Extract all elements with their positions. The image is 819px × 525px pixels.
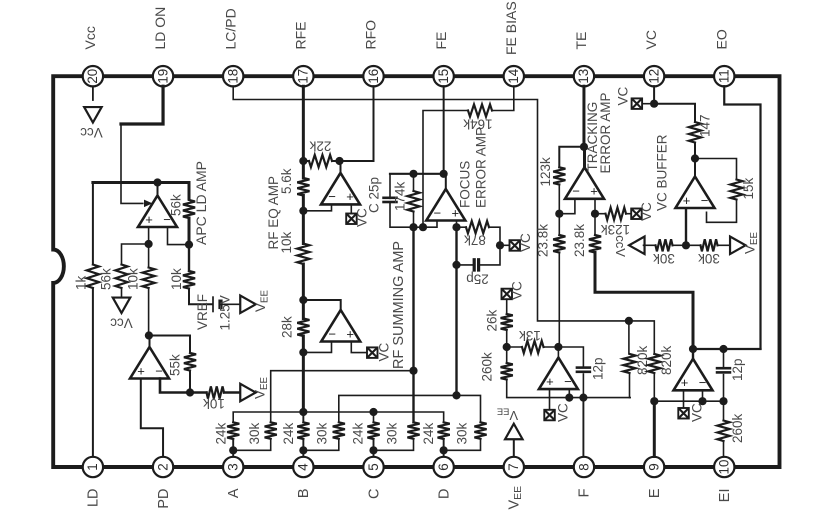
pin 20 circle	[83, 66, 103, 86]
svg-text:30k: 30k	[384, 422, 399, 444]
svg-text:24k: 24k	[281, 422, 296, 444]
junction RFE 22k tap	[299, 157, 307, 165]
wire pin8 riser	[582, 398, 584, 457]
Vcc supply arrow (pin20)	[84, 107, 102, 123]
junction Y1 pin4	[299, 408, 307, 416]
wire pin13 TE riser	[582, 86, 585, 147]
wire pin11 EO to E output	[724, 86, 760, 349]
wire 30k to VEE	[718, 244, 731, 246]
svg-text:+: +	[590, 184, 598, 199]
svg-text:RF SUMMING AMP: RF SUMMING AMP	[391, 241, 407, 369]
pin 1 circle	[83, 457, 103, 477]
wire VC to 147	[654, 104, 695, 122]
svg-text:C: C	[366, 489, 382, 499]
wire U2 output node to 55k	[149, 336, 190, 353]
svg-text:E: E	[647, 488, 663, 498]
wire 23.8k-1 top	[558, 214, 560, 235]
junction focus minus riser	[409, 367, 417, 375]
svg-text:A: A	[226, 488, 242, 498]
junction tracking minus	[555, 210, 563, 218]
svg-text:26k: 26k	[484, 309, 499, 331]
svg-text:6: 6	[436, 463, 451, 470]
wire 30k C riser	[412, 227, 414, 422]
wire 123k to minus node	[558, 185, 560, 214]
wire U7 apex to output	[694, 159, 696, 177]
svg-text:20: 20	[85, 69, 100, 84]
wire 260k EI top	[723, 401, 725, 420]
pin 18 circle	[223, 66, 243, 86]
svg-text:+: +	[346, 189, 354, 204]
svg-text:VREF: VREF	[195, 294, 210, 330]
wire 23.8k-2 to E output	[595, 253, 693, 350]
wire U1 minus input	[168, 227, 190, 245]
wire pin7 VEE	[513, 439, 515, 456]
svg-text:ERROR AMP: ERROR AMP	[473, 127, 488, 208]
wire 820k-2 bottom	[653, 373, 655, 401]
pin 13 circle	[574, 66, 594, 86]
wire 30k A riser to focus minus net	[271, 371, 414, 423]
wire 174k top stub	[413, 174, 415, 191]
junction VC pin node	[650, 100, 658, 108]
svg-text:5.6k: 5.6k	[279, 168, 294, 194]
resistor 56k bias	[115, 265, 127, 289]
op-amp U3 RF EQ AMP	[321, 173, 360, 205]
svg-text:VC: VC	[509, 281, 524, 300]
wire 24k B to pin	[302, 439, 304, 456]
wire E output rail	[693, 348, 761, 350]
svg-text:56k: 56k	[168, 194, 183, 216]
junction 25p tap	[452, 261, 460, 269]
pin 17 circle	[293, 66, 313, 86]
pin 19 circle	[153, 66, 173, 86]
wire U3 apex to RFO node	[340, 161, 342, 173]
svg-text:+: +	[346, 326, 354, 341]
resistor 123k (tracking fb)	[553, 167, 565, 184]
junction pin D pair	[440, 446, 448, 454]
wire 55k to minus rail	[189, 371, 191, 393]
wire U8 plus to VC	[549, 390, 551, 410]
wire 260k top stub	[506, 347, 508, 363]
wire buffer out to 15k	[695, 159, 737, 180]
svg-text:260k: 260k	[730, 413, 745, 443]
resistor 30k (left)	[656, 239, 673, 251]
wire U9 minus input	[702, 391, 704, 401]
wire RFE segment 4	[302, 264, 305, 300]
resistor 123k horizontal	[606, 208, 627, 220]
svg-text:PD: PD	[156, 489, 172, 509]
wire 30k C bottom	[374, 439, 414, 451]
wire node to 30k right	[686, 244, 701, 246]
resistor 22k	[309, 155, 332, 167]
capacitor 12p (F)	[576, 366, 592, 369]
junction F output	[554, 343, 562, 351]
wire U4 apex to output node	[303, 300, 340, 310]
svg-text:5: 5	[366, 463, 381, 470]
svg-text:17: 17	[296, 69, 311, 84]
junction 55k bottom	[186, 388, 194, 396]
pin 7 circle	[504, 457, 524, 477]
wire Vcc to 30k	[644, 244, 656, 246]
wire battery to VEE	[221, 303, 241, 305]
resistor 30k (C)	[407, 422, 419, 439]
svg-text:10k: 10k	[125, 268, 140, 290]
svg-text:19: 19	[155, 69, 170, 84]
wire 260k EI to pin10	[723, 441, 725, 456]
wire focus plus riser	[455, 227, 457, 395]
wire U4 minus input	[303, 343, 331, 353]
resistor 24k (D)	[438, 422, 450, 439]
svg-text:VEE: VEE	[507, 486, 525, 510]
wire pin17 RFE riser	[302, 86, 305, 161]
junction summing minus	[299, 348, 307, 356]
wire 174k bottom stub	[413, 212, 415, 228]
svg-text:87k: 87k	[464, 233, 486, 248]
svg-text:−: −	[701, 193, 709, 208]
svg-text:174k: 174k	[392, 181, 407, 211]
wire 147 to buffer out	[694, 143, 696, 159]
wire cap branch down	[389, 174, 391, 199]
svg-text:1k: 1k	[73, 275, 88, 290]
svg-text:+: +	[683, 193, 691, 208]
svg-text:30k: 30k	[314, 422, 329, 444]
svg-text:+: +	[137, 363, 145, 378]
wire tracking plus to 123k	[595, 213, 606, 215]
wire 12p to rail	[582, 374, 584, 398]
pin 12 circle	[644, 66, 664, 86]
svg-text:RFO: RFO	[363, 20, 379, 50]
wire 13k to F output	[544, 346, 559, 348]
svg-text:14: 14	[506, 68, 521, 83]
VC box (26k top)	[502, 289, 513, 300]
bus Y2 30k B/D bus	[339, 395, 481, 422]
svg-text:15: 15	[436, 69, 451, 84]
svg-text:−: −	[434, 205, 442, 220]
svg-text:25p: 25p	[466, 272, 489, 287]
junction focus output	[440, 170, 448, 178]
svg-text:28k: 28k	[279, 316, 294, 338]
wire U3 minus input	[303, 206, 331, 211]
junction tracking plus	[591, 210, 599, 218]
wire U6 apex to TE	[583, 147, 586, 168]
wire VREF node	[188, 245, 190, 271]
wire 10k to U2 output node	[148, 288, 150, 336]
svg-text:30k: 30k	[454, 422, 469, 444]
svg-text:164k: 164k	[463, 117, 493, 132]
junction E rail 12p	[719, 397, 727, 405]
svg-text:7: 7	[506, 463, 521, 470]
junction VC corner (focus)	[496, 241, 504, 249]
svg-text:147: 147	[697, 114, 712, 137]
VC box (tracking)	[631, 209, 642, 220]
VC box (U4 plus)	[367, 347, 378, 358]
wire U8 minus input	[568, 390, 570, 398]
wire 123k to VC box	[626, 213, 631, 215]
svg-text:8: 8	[576, 463, 591, 470]
resistor 24k (C)	[367, 422, 379, 439]
wire 24k A to pin	[232, 439, 234, 456]
VC box (pin12)	[632, 98, 643, 109]
svg-text:EO: EO	[713, 29, 729, 49]
capacitor 25p	[473, 258, 476, 272]
wire node to 13k	[507, 346, 522, 348]
svg-text:10k: 10k	[169, 268, 184, 290]
wire 22k to RFO node	[332, 160, 340, 162]
wire LD ON down to input arrow	[121, 124, 143, 203]
VC box (U8 plus)	[544, 410, 555, 421]
junction RFE minus tap	[299, 207, 307, 215]
junction 56k bottom	[185, 241, 193, 249]
junction E rail pin9	[650, 397, 658, 405]
wire U1 plus input	[148, 227, 150, 244]
wire pin4 riser above 24k	[302, 412, 304, 422]
wire U2 apex to output node	[149, 336, 151, 348]
svg-text:FOCUS: FOCUS	[457, 161, 472, 208]
wire pin20 to Vcc arrow	[92, 87, 94, 100]
resistor 174k	[407, 191, 419, 212]
svg-text:12: 12	[646, 69, 661, 84]
resistor 30k (B)	[333, 422, 345, 439]
wire RFE segment	[302, 161, 305, 178]
wire VC stub (focus)	[500, 244, 510, 246]
VC box (focus)	[510, 240, 521, 251]
pin 10 circle	[714, 457, 734, 477]
wire RFO node to pin16	[340, 86, 374, 161]
resistor 23.8k (minus)	[553, 235, 565, 253]
svg-text:−: −	[572, 184, 580, 199]
wire 30k D bottom	[444, 439, 481, 451]
pin 15 circle	[433, 66, 453, 86]
junction 164k line bottom	[419, 223, 427, 231]
svg-text:23.8k: 23.8k	[535, 224, 550, 257]
svg-text:APC LD AMP: APC LD AMP	[193, 161, 209, 245]
wire pin9 riser	[653, 401, 656, 456]
svg-text:F: F	[577, 488, 593, 497]
bus Y1 24k summing bus	[233, 412, 443, 422]
svg-text:VC BUFFER: VC BUFFER	[654, 134, 669, 211]
wire 820k-1 top stub	[628, 321, 630, 354]
wire 30k to node	[673, 244, 687, 246]
wire summing minus segment	[302, 336, 305, 352]
wire 30k B bottom	[303, 439, 338, 451]
resistor 30k (D)	[474, 422, 486, 439]
svg-text:LD ON: LD ON	[152, 7, 168, 50]
svg-text:56k: 56k	[98, 268, 113, 290]
svg-text:15k: 15k	[741, 177, 756, 199]
svg-text:4: 4	[296, 463, 311, 471]
wire 260k to rail	[507, 380, 631, 398]
resistor 820k (2)	[648, 354, 660, 373]
VEE supply arrow (U2)	[240, 384, 256, 402]
resistor 260k (EI)	[717, 421, 729, 442]
wire 12p E to rail	[723, 375, 725, 402]
junction focus plus 87k tap	[452, 223, 460, 231]
Vcc supply arrow (divider)	[629, 237, 645, 255]
VEE supply arrow (pin7)	[505, 424, 523, 440]
svg-text:9: 9	[646, 463, 661, 470]
VC box (U3 plus)	[346, 214, 357, 225]
wire focus plus jog	[456, 221, 458, 227]
svg-text:VC: VC	[555, 403, 570, 422]
svg-text:10k: 10k	[279, 231, 294, 253]
svg-text:−: −	[699, 375, 707, 390]
op-amp U9 E amp	[674, 359, 713, 391]
pin 11 circle	[714, 66, 734, 86]
wire pin12 VC riser	[653, 86, 655, 104]
resistor 24k (B)	[297, 422, 309, 439]
wire pin19 LD ON to APC input	[121, 86, 163, 124]
svg-text:22k: 22k	[309, 139, 331, 154]
wire TE to 123k	[559, 147, 584, 168]
wire riser to 24k bus	[302, 352, 305, 412]
wire 87k to VC corner	[489, 227, 500, 245]
VEE supply arrow (VREF)	[240, 296, 256, 314]
resistor 10k (RFE)	[297, 244, 309, 265]
wire rail to 56k feedback	[188, 183, 191, 200]
junction F minus	[565, 394, 573, 402]
svg-text:VC: VC	[689, 403, 704, 422]
pin 2 circle	[153, 457, 173, 477]
wire U3 plus to VC	[350, 206, 352, 214]
svg-text:ERROR AMP: ERROR AMP	[598, 92, 613, 173]
wire 24k C to pin	[373, 439, 375, 456]
wire U6 minus input	[559, 200, 575, 214]
svg-text:ccV: ccV	[613, 235, 628, 257]
capacitor 12p (E)	[716, 367, 732, 370]
resistor 13k	[522, 341, 544, 353]
svg-text:B: B	[296, 489, 312, 499]
junction 174k top	[409, 170, 417, 178]
wire plus node to 56k bias	[122, 244, 149, 265]
wire U6 plus input	[594, 200, 596, 214]
svg-text:12p: 12p	[590, 357, 605, 380]
IC package outline with pin-1 notch	[53, 76, 779, 467]
resistor 87k	[466, 221, 489, 233]
junction pin A pair	[229, 446, 237, 454]
svg-text:11: 11	[717, 69, 732, 83]
pin 6 circle	[433, 457, 453, 477]
resistor 260k (F)	[501, 363, 513, 380]
wire 164k to focus minus	[423, 111, 468, 228]
svg-text:260k: 260k	[479, 352, 494, 382]
wire VC to 26k	[506, 299, 508, 314]
svg-text:13k: 13k	[519, 328, 541, 343]
wire VC stub to box	[642, 103, 654, 105]
wire focus top rail	[390, 173, 444, 175]
svg-text:10: 10	[717, 460, 732, 475]
op-amp U6 TRACKING ERROR AMP	[565, 167, 604, 199]
wire U7 plus riser	[685, 210, 687, 246]
wire U8 apex to output	[557, 347, 559, 358]
wire 15k to minus	[707, 200, 737, 223]
wire 25p branch	[457, 264, 473, 266]
svg-text:1: 1	[85, 463, 100, 470]
pin 16 circle	[363, 66, 383, 86]
resistor 26k	[501, 314, 513, 330]
op-amp U5 FOCUS ERROR AMP	[426, 189, 465, 221]
svg-text:12p: 12p	[730, 358, 745, 381]
svg-text:VEE: VEE	[252, 377, 270, 399]
op-amp U7 VC BUFFER	[676, 177, 715, 209]
svg-text:+: +	[145, 212, 153, 227]
wire 56k to node	[188, 218, 191, 245]
wire U1 apex to rail	[157, 183, 159, 196]
svg-text:30k: 30k	[653, 251, 675, 266]
svg-text:FE: FE	[433, 32, 449, 50]
svg-text:18: 18	[226, 69, 241, 84]
svg-text:VC: VC	[615, 86, 630, 105]
svg-text:VEE: VEE	[253, 290, 271, 312]
svg-text:−: −	[155, 363, 163, 378]
svg-text:VC: VC	[639, 202, 654, 221]
resistor 23.8k (plus)	[589, 235, 601, 253]
resistor 5.6k	[297, 178, 309, 196]
svg-text:Vcc: Vcc	[110, 316, 133, 331]
wire E minus rail	[654, 400, 723, 402]
wire pin18 LC/PD long net	[233, 86, 629, 321]
junction summing output	[299, 296, 307, 304]
op-amp U4 RF SUMMING AMP	[321, 310, 360, 342]
wire 24k D to pin	[443, 439, 445, 456]
junction E minus	[698, 397, 706, 405]
svg-text:24k: 24k	[421, 422, 436, 444]
svg-text:+: +	[681, 375, 689, 390]
pin 3 circle	[223, 457, 243, 477]
op-amp U2 (PD amp)	[130, 347, 169, 379]
wire 12p E branch	[723, 349, 725, 368]
resistor 55k feedback	[184, 353, 196, 371]
junction E output	[689, 345, 697, 353]
wire RFE to 22k	[303, 160, 309, 162]
wire U2 plus input from pin2 PD	[141, 379, 163, 457]
wire RFE segment 2	[302, 196, 305, 211]
op-amp U8 F amp	[539, 358, 578, 390]
pin 8 circle	[574, 457, 594, 477]
svg-text:VEE: VEE	[742, 232, 760, 254]
svg-text:LC/PD: LC/PD	[222, 8, 238, 49]
wire U1 output rail	[93, 181, 189, 184]
wire cap to bottom rail	[390, 204, 437, 227]
svg-text:30k: 30k	[698, 251, 720, 266]
wire 10k to VEE arrow	[224, 391, 240, 394]
wire 87k branch	[457, 226, 467, 228]
svg-text:1.25V: 1.25V	[217, 295, 232, 330]
wire pin5 24k top stub	[373, 412, 375, 422]
pin 14 circle	[504, 66, 524, 86]
wire 26k to node	[506, 330, 508, 347]
wire pin1 LD riser with 1k	[92, 288, 94, 456]
wire 820k-1 bottom to F rail	[629, 373, 631, 398]
resistor 10k horizontal	[207, 386, 225, 398]
junction 820k-1 top	[625, 317, 633, 325]
svg-text:2: 2	[155, 463, 170, 470]
svg-text:3: 3	[226, 463, 241, 470]
wire 23.8k-1 to F output	[558, 253, 560, 347]
resistor 56k feedback	[183, 200, 195, 218]
input arrowhead into op-amp U1	[144, 200, 153, 208]
VEE supply arrow (divider)	[730, 237, 746, 255]
junction Y1 pin5	[369, 408, 377, 416]
junction TE output	[580, 143, 588, 151]
svg-text:RFE: RFE	[292, 22, 308, 50]
svg-text:30k: 30k	[247, 422, 262, 444]
resistor 28k	[297, 319, 309, 337]
svg-text:C 25p: C 25p	[366, 177, 381, 213]
wire 23.8k-2 top	[594, 214, 596, 235]
capacitor C 25p	[382, 197, 398, 200]
pin 9 circle	[644, 457, 664, 477]
resistor 10k (plus node to U2 out)	[143, 268, 155, 289]
wire pin14 FE BIAS riser	[492, 86, 514, 110]
